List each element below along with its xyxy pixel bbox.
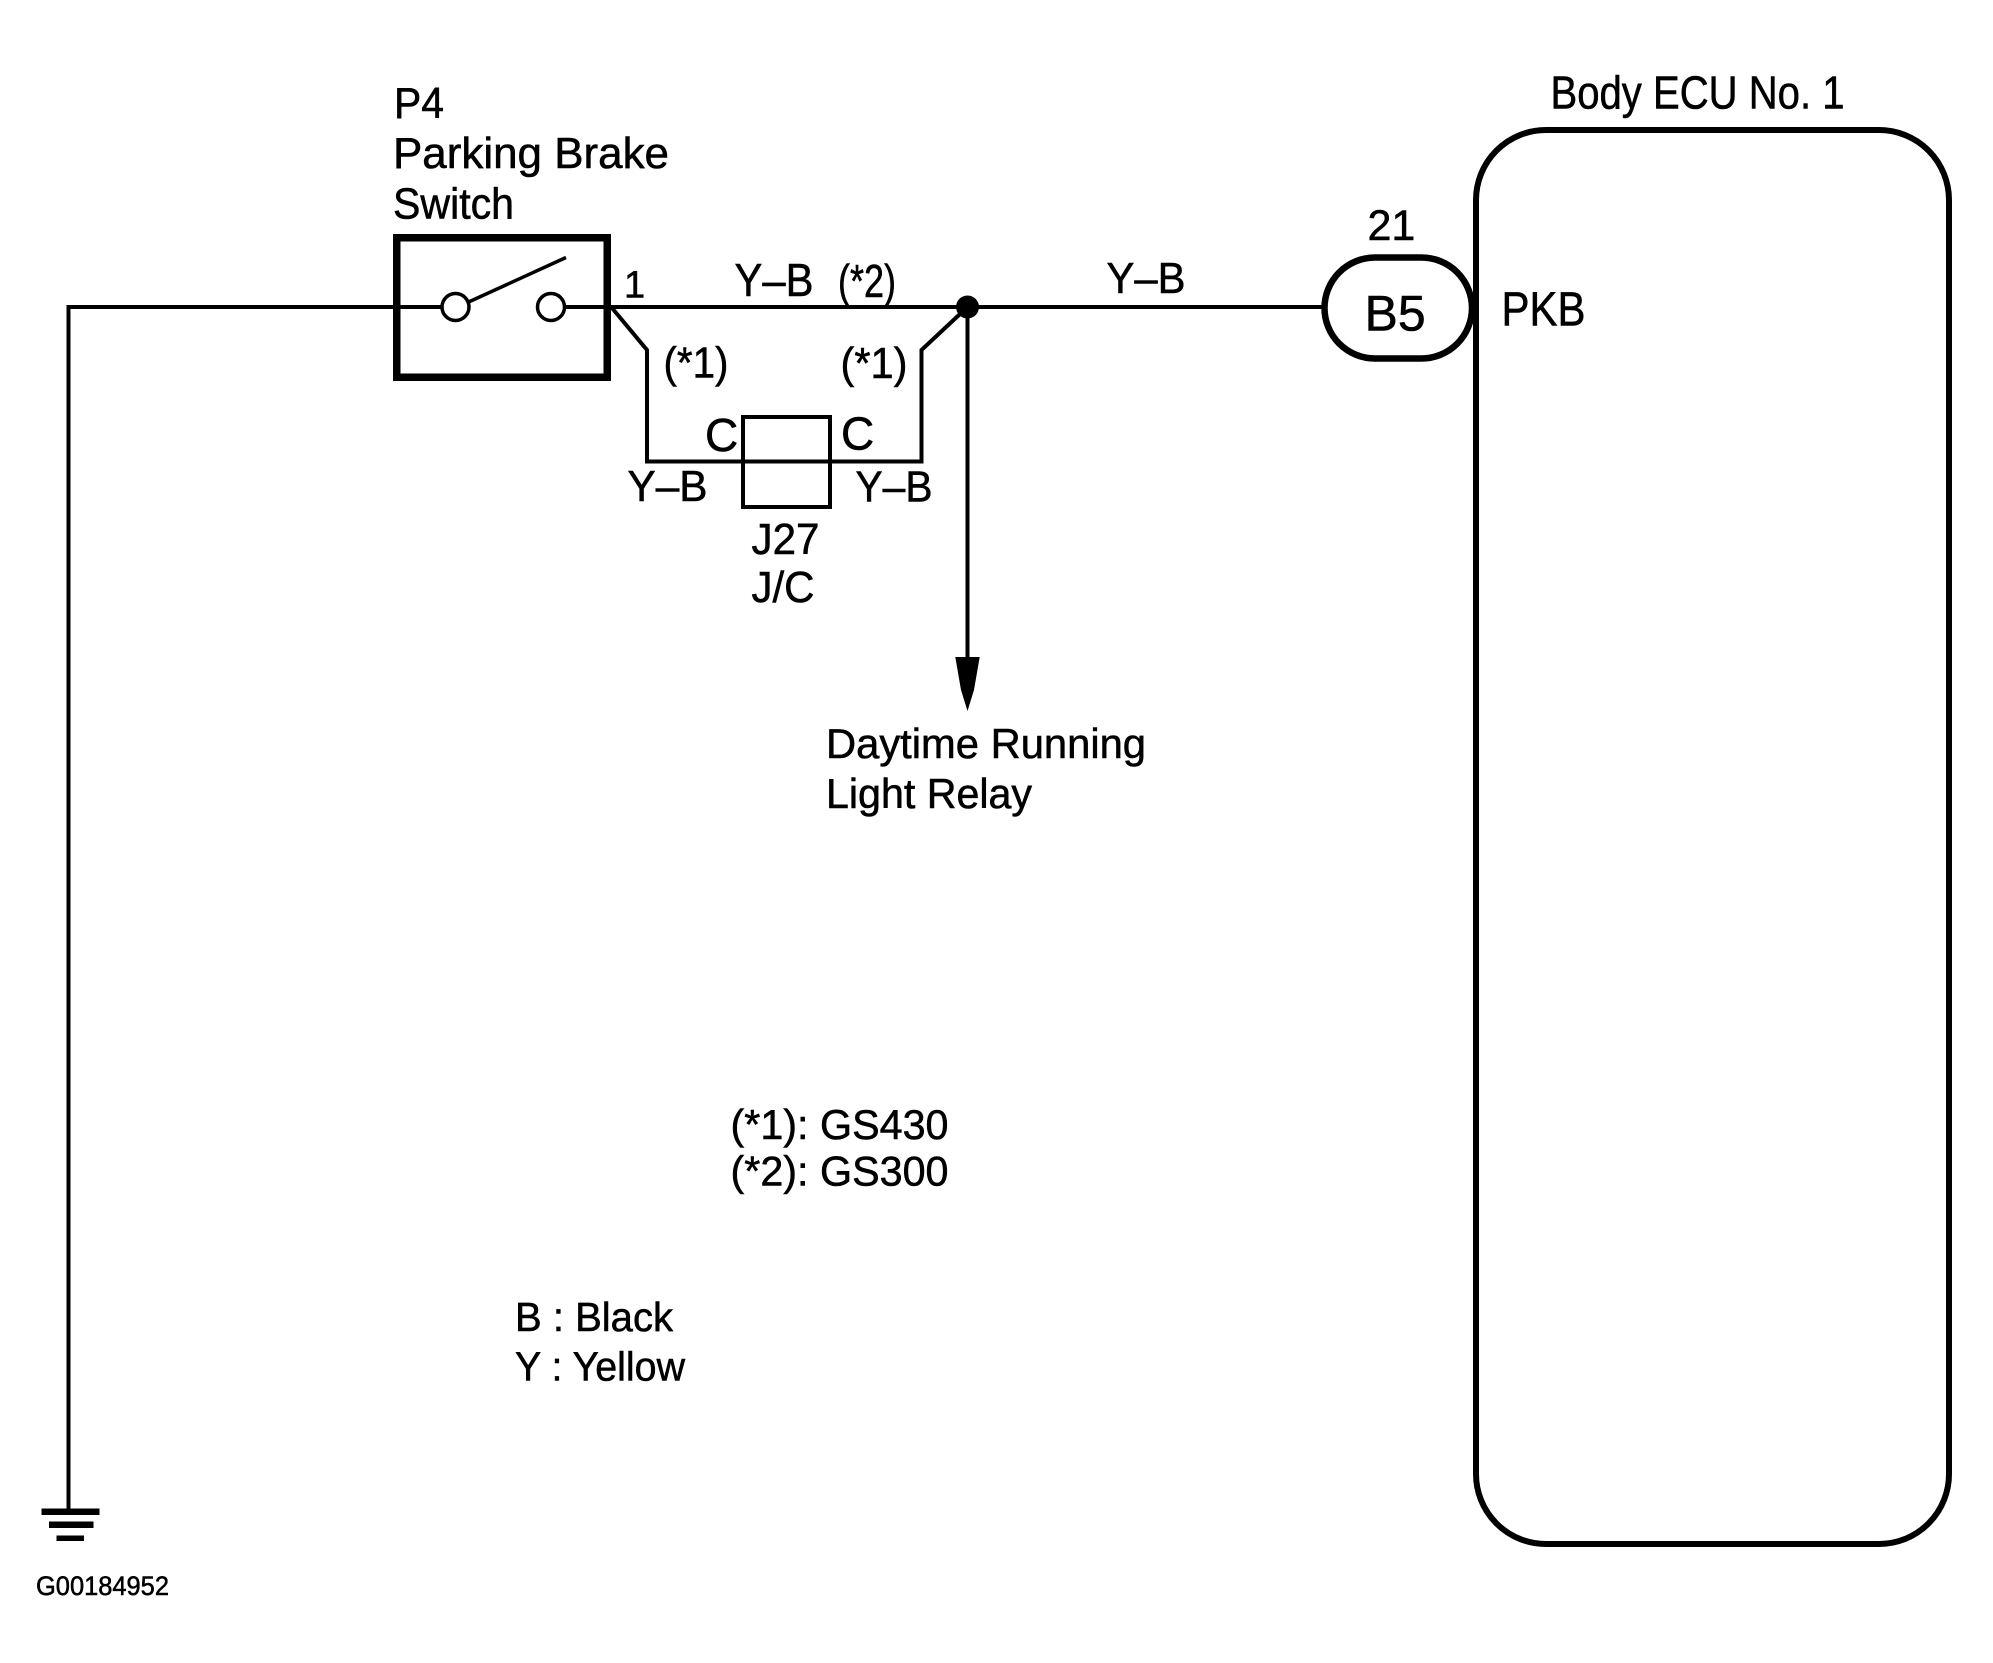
svg-text:(*1): GS430: (*1): GS430 bbox=[731, 1101, 949, 1148]
ground bbox=[42, 1509, 100, 1542]
svg-text:Body ECU No. 1: Body ECU No. 1 bbox=[1551, 67, 1845, 119]
svg-text:(*2): (*2) bbox=[838, 255, 896, 307]
switch contact right bbox=[538, 294, 565, 321]
svg-text:Y : Yellow: Y : Yellow bbox=[515, 1344, 685, 1390]
svg-text:Y–B: Y–B bbox=[628, 462, 708, 511]
svg-text:Light Relay: Light Relay bbox=[826, 770, 1032, 817]
svg-text:1: 1 bbox=[624, 265, 645, 307]
svg-text:(*2): GS300: (*2): GS300 bbox=[731, 1148, 949, 1195]
switch lever bbox=[468, 258, 567, 303]
svg-text:P4: P4 bbox=[394, 79, 444, 128]
arrowhead bbox=[955, 657, 979, 711]
Body ECU No. 1 box bbox=[1476, 130, 1949, 1544]
svg-text:(*1): (*1) bbox=[664, 339, 729, 388]
svg-text:Y–B: Y–B bbox=[735, 254, 814, 306]
connector pin B5 oval bbox=[1325, 258, 1473, 359]
node: junction dot bbox=[956, 296, 979, 319]
svg-text:Y–B: Y–B bbox=[856, 463, 933, 512]
svg-text:Y–B: Y–B bbox=[1107, 254, 1186, 303]
svg-text:J27: J27 bbox=[752, 515, 820, 564]
parking brake switch P4 box bbox=[397, 238, 608, 378]
svg-text:B5: B5 bbox=[1365, 286, 1426, 342]
svg-text:Switch: Switch bbox=[393, 180, 514, 229]
svg-text:PKB: PKB bbox=[1502, 284, 1586, 337]
wire: GS430 branch left down to J27 bbox=[612, 308, 742, 462]
wire: switch to ground run bbox=[69, 307, 451, 1510]
switch contact left bbox=[442, 294, 469, 321]
svg-text:(*1): (*1) bbox=[841, 339, 908, 388]
svg-text:Daytime Running: Daytime Running bbox=[826, 720, 1146, 767]
svg-text:G00184952: G00184952 bbox=[36, 1571, 169, 1601]
svg-text:Parking Brake: Parking Brake bbox=[393, 129, 669, 178]
svg-text:C: C bbox=[705, 409, 738, 461]
svg-text:B : Black: B : Black bbox=[515, 1294, 673, 1340]
svg-text:21: 21 bbox=[1368, 202, 1416, 250]
svg-text:C: C bbox=[841, 408, 874, 460]
wire: GS430 branch right up to junction dot bbox=[831, 307, 968, 462]
junction connector J27 box bbox=[743, 417, 830, 507]
wire: pin 1 to junction dot and on to B5 bbox=[560, 305, 1322, 309]
svg-text:J/C: J/C bbox=[752, 563, 815, 612]
wire: arrow down to daytime running light relay bbox=[966, 307, 970, 659]
wire: J27 inner crossing bbox=[742, 460, 832, 464]
